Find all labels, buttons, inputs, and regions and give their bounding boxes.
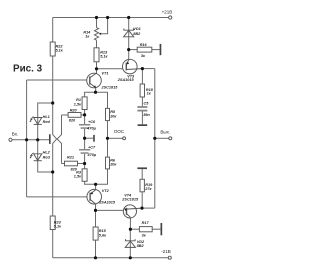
capacitor input plate [49,134,51,144]
node output [153,137,156,140]
svg-text:R21: R21 [67,155,74,159]
node A [51,101,54,104]
wire VD1 top lead [128,18,130,37]
resistor R16 [137,47,152,52]
wire VD2 top lead [129,229,131,247]
svg-text:470µ: 470µ [86,127,96,131]
wire VT1 collector stub [96,69,98,74]
wire bottom rail -21V [53,257,169,259]
node R1 R20 [83,113,86,116]
wire R21 right lead to node D [78,163,85,165]
capacitor C7 [79,149,90,154]
terminal +21V [169,16,172,19]
svg-text:R17: R17 [142,221,150,225]
ground bar above R19 [137,167,147,169]
resistor R20 [68,113,81,118]
wire VT2 base [27,196,88,198]
node VT3 collector R18 [141,67,144,70]
wire VT4 collector row [142,207,155,209]
resistor R17 [139,227,152,232]
svg-text:5,1к: 5,1к [100,55,108,59]
wire VT4 emitter stub [129,217,131,229]
wire R21 left lead [62,163,65,165]
svg-text:39п: 39п [143,113,150,117]
node R13 VT1 collector [95,67,98,70]
svg-text:1,5к: 1,5к [74,102,82,106]
node VT4 collector R19 [140,207,143,210]
zener diode VD2 [125,239,135,247]
wire R18 to C5 [141,97,143,106]
svg-text:+C6: +C6 [88,120,96,124]
resistor R18 [140,84,144,97]
wire R19 to VT4 collector row [141,192,143,208]
node B [51,170,54,173]
wire C5 to ground bar [141,112,143,125]
wire node A to LED column [38,103,53,124]
resistor R22 [50,42,55,56]
resistor R19 [140,179,144,192]
wire ground stub of C6/C7 midpoint [85,137,94,139]
LED HL2 arrows [30,153,33,158]
svg-text:Red: Red [43,120,51,124]
svg-text:Red: Red [43,155,51,159]
svg-text:Вх.: Вх. [12,132,18,137]
wire R20 left lead [62,114,69,116]
svg-text:1,5к: 1,5к [74,175,82,179]
wire VD2 bottom lead [129,247,131,257]
wire left loop vertical (bases) [26,80,28,197]
resistor R23 [50,216,55,230]
svg-text:Рис. 3: Рис. 3 [13,64,43,75]
svg-text:ООС: ООС [114,129,125,134]
wire VT2 collector to VT4 base [96,204,124,210]
resistor R13 [94,48,99,62]
svg-text:1к: 1к [147,91,152,95]
wire VT2 collector down to R15 [95,210,97,227]
wire right pinch column R20 to R21 [57,115,61,164]
node bottom rail VD2 [129,256,132,259]
wire top rail +21V [53,17,169,19]
svg-text:8В2: 8В2 [133,32,141,36]
node input loop [25,138,28,141]
wire ground bar to R19 [141,169,143,179]
svg-text:3к: 3к [142,234,147,238]
LED HL1 [34,118,42,125]
terminal output [169,137,172,140]
wire left column from top rail down to node A [52,18,54,104]
resistor R5 [106,108,110,120]
svg-text:2SC1815: 2SC1815 [101,86,119,90]
capacitor C5 [137,106,147,111]
svg-text:VT2: VT2 [102,189,110,193]
capacitor C6 [79,124,90,129]
wire R17 left lead [130,228,139,230]
svg-text:820: 820 [71,167,78,171]
wire VT3 base [97,68,123,70]
wire R14 wiper from rail [101,18,107,34]
resistor R1 [82,97,87,110]
wire node D through R3 to VT2 emitter row [84,164,86,169]
svg-text:C5: C5 [144,101,150,105]
transistor VT3 [123,59,143,74]
LED HL1 arrows [30,116,33,121]
transistor VT1 [87,73,102,88]
node VD1 R16 [127,48,130,51]
svg-text:5,1к: 5,1к [54,224,62,228]
svg-text:2SC1815: 2SC1815 [121,197,139,201]
wire VT1 base [27,79,87,81]
wire node B down to R23 [52,172,54,216]
wire R16 right lead to ground bar [152,49,160,51]
svg-text:VT1: VT1 [102,71,109,75]
svg-text:+C7: +C7 [88,145,96,149]
svg-text:5,1к: 5,1к [56,49,64,53]
terminal input [9,138,12,141]
wire output rail vertical [154,69,156,209]
svg-text:R20: R20 [70,108,78,112]
node C6 C7 midpoint [83,137,86,140]
node VT2 collector [94,209,97,212]
wire column node A to pinch to node B [53,103,57,172]
terminal OOC [123,137,126,140]
node top rail wiper [106,16,109,19]
node bottom rail R15 [94,256,97,259]
svg-text:+21В: +21В [162,10,173,15]
wire VT2 emitter row [85,169,108,184]
wire R13 to node E [96,62,98,69]
node VT2 emitter [94,183,97,186]
ground bar right of R16 [160,44,162,55]
wire node F to VT3 emitter [128,50,130,61]
ground bar below C5 [138,124,148,126]
wire R1 to node C [84,110,86,125]
node top rail R13 [95,16,98,19]
wire input [12,139,49,141]
potentiometer R14 wiper arrow [99,33,102,35]
svg-text:3к: 3к [141,54,146,58]
node R21 R3 [83,162,86,165]
wire node B to LED column bottom [38,154,53,172]
wire VT3 collector row [142,68,154,70]
wire C7 to node D [84,154,86,164]
wire VT2 emitter stub [95,184,97,190]
node VT4 emitter R17 [129,228,132,231]
wire OOC terminal [108,137,123,139]
svg-text:1к: 1к [85,35,90,39]
zener diode VD1 [124,29,134,37]
svg-text:820: 820 [69,118,76,122]
wire R13 R14 column from top rail [96,18,98,28]
node input LED mid [36,138,39,141]
resistor R3 [82,169,87,182]
wire R23 to bottom rail [52,230,54,258]
svg-text:2SA1015: 2SA1015 [98,201,116,205]
wire R5 to OOC node [107,121,109,158]
wire output terminal [155,137,169,139]
wire R18 column from VT3 collector [141,69,143,84]
wire C6 to C7 [84,129,86,149]
resistor R15 [93,227,98,240]
svg-text:2SA1015: 2SA1015 [117,78,135,82]
resistor R21 [65,161,78,166]
wire VD1 bottom lead to node F [128,37,130,50]
node OOC [106,137,109,140]
ground bar right of R17 [161,223,163,235]
terminal -21V [168,256,171,259]
wire VT1 emitter stub [95,88,97,93]
svg-text:Вых.: Вых. [160,129,170,134]
LED HL2 [34,154,42,161]
ground bar at C6/C7 midpoint [93,135,95,142]
potentiometer R14 zigzag [94,28,98,41]
wire R15 to bottom rail [95,240,97,258]
svg-text:8В2: 8В2 [137,244,145,248]
svg-text:20к: 20к [109,163,117,167]
wire LED chain between HL1 and HL2 [37,124,39,153]
wire R16 left lead [129,49,138,51]
svg-text:5,6к: 5,6к [99,233,107,237]
transistor VT4 [123,205,142,218]
svg-text:470µ: 470µ [87,153,97,157]
svg-text:20к: 20к [109,114,117,118]
wire VT1 emitter row [85,92,108,108]
wire R14 to R13 [96,40,98,48]
resistor R6 [106,157,110,169]
svg-text:R16: R16 [140,43,148,47]
wire R20 right lead to node C [81,114,85,116]
svg-text:-21В: -21В [161,249,171,254]
svg-text:VD1: VD1 [133,27,140,31]
wire R17 right lead to ground bar [152,228,160,230]
svg-text:HL2: HL2 [43,151,51,155]
svg-text:27к: 27к [144,187,152,191]
node VT1 emitter [94,91,97,94]
transistor VT2 [87,189,102,204]
node top rail VD1 [127,16,130,19]
svg-text:HL1: HL1 [43,115,50,119]
